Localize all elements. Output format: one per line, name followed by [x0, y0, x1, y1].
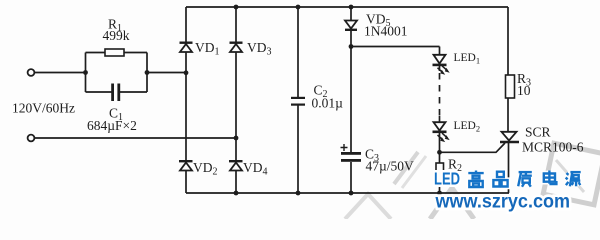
svg-text:120V/60Hz: 120V/60Hz	[12, 101, 75, 116]
svg-text:LED: LED	[434, 169, 460, 189]
svg-text:www.szryc.com: www.szryc.com	[435, 192, 570, 213]
svg-text:0.01µ: 0.01µ	[312, 96, 344, 111]
svg-text:LED2: LED2	[454, 120, 481, 134]
svg-text:VD2: VD2	[193, 160, 218, 178]
svg-text:1N4001: 1N4001	[364, 24, 408, 39]
svg-text:VD3: VD3	[247, 40, 272, 58]
svg-text:MCR100-6: MCR100-6	[522, 140, 584, 155]
svg-text:684µF×2: 684µF×2	[87, 118, 137, 133]
svg-text:VD4: VD4	[243, 160, 268, 178]
svg-text:LED1: LED1	[454, 52, 481, 66]
svg-text:SCR: SCR	[525, 125, 551, 140]
svg-text:VD1: VD1	[195, 40, 220, 58]
svg-text:10: 10	[517, 83, 531, 98]
svg-text:499k: 499k	[103, 28, 130, 43]
svg-text:47µ/50V: 47µ/50V	[366, 159, 415, 174]
